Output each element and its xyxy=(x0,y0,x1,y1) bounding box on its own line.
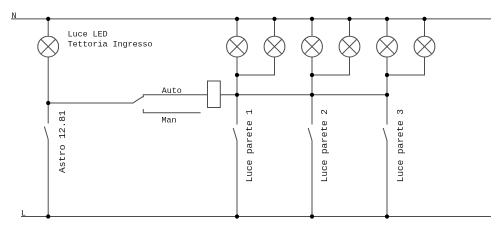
switch S4 (Luce parete 3) blade xyxy=(383,128,387,141)
wire: N bus to lamp E4 top xyxy=(311,19,313,36)
svg-text:Astro 12.81: Astro 12.81 xyxy=(57,110,68,173)
svg-text:N: N xyxy=(12,11,17,21)
switch S2 (Luce parete 1) blade xyxy=(233,128,237,141)
junction: N bus / lamp E3 xyxy=(272,17,276,21)
junction: node D xyxy=(310,73,314,77)
wire: lamp E5 bottom to node D xyxy=(312,57,350,75)
svg-text:Tettoria Ingresso: Tettoria Ingresso xyxy=(68,39,153,49)
net N (neutral bus, top) xyxy=(11,18,491,20)
lamp E6 xyxy=(377,36,398,57)
junction: node F xyxy=(385,73,389,77)
junction: node B xyxy=(235,73,239,77)
wire: N bus to lamp E2 top xyxy=(236,19,238,36)
lamp E5 xyxy=(339,36,360,57)
switch S3 (Luce parete 2) blade xyxy=(308,128,312,141)
junction: N bus / lamp E5 xyxy=(347,17,351,21)
switch S0 (Astro 12.81) blade xyxy=(44,127,48,140)
lamp E4 xyxy=(302,36,323,57)
wire: lamp E1 bottom to node A xyxy=(47,57,49,103)
svg-text:Auto: Auto xyxy=(162,86,182,96)
svg-text:Man: Man xyxy=(162,116,177,126)
relay coil K1 xyxy=(208,81,221,108)
wire: lamp E4 bottom to node D xyxy=(311,57,313,75)
wire: switch S2 to L bus xyxy=(236,141,238,217)
junction: node E xyxy=(310,93,314,97)
junction: L bus / switch S2 xyxy=(235,214,239,218)
junction: L bus / switch S3 xyxy=(310,214,314,218)
wire: node F to bus node G xyxy=(386,75,388,95)
junction: L bus / switch S4 xyxy=(385,214,389,218)
lamp E2 xyxy=(227,36,248,57)
junction: N bus / lamp E6 xyxy=(385,17,389,21)
junction: L bus / switch S0 xyxy=(46,214,50,218)
wire: lamp E3 bottom to node B xyxy=(237,57,275,75)
wire: N bus to lamp E5 top xyxy=(349,19,351,36)
svg-text:Luce parete 1: Luce parete 1 xyxy=(244,109,255,183)
lamp E3 xyxy=(264,36,285,57)
lamp E1 (Luce LED Tettoria Ingresso) xyxy=(38,36,59,57)
wire: node A down to switch S0 xyxy=(47,103,49,124)
wire: lamp E7 bottom to node F xyxy=(387,57,425,75)
wire: node A to selector common xyxy=(48,102,132,104)
wire: node B to bus node C xyxy=(236,75,238,95)
wire: lamp E2 bottom to node B xyxy=(236,57,238,75)
wire: node E down to switch S3 xyxy=(311,95,313,125)
wire: node G down to switch S4 xyxy=(386,95,388,125)
junction: N bus / lamp E4 xyxy=(310,17,314,21)
wire: lamp E6 bottom to node F xyxy=(386,57,388,75)
net L (line bus, bottom) xyxy=(21,216,491,218)
svg-text:Luce parete 3: Luce parete 3 xyxy=(395,109,406,183)
contact Auto wire xyxy=(143,95,207,98)
junction: node G xyxy=(385,93,389,97)
wire: N bus to lamp E1 top xyxy=(47,19,49,36)
contact Man stub xyxy=(143,109,200,113)
junction: N bus / lamp E7 xyxy=(422,17,426,21)
junction: N bus / lamp E2 xyxy=(235,17,239,21)
wire: N bus to lamp E3 top xyxy=(274,19,276,36)
wire: node C down to switch S2 xyxy=(236,95,238,125)
svg-text:Luce LED: Luce LED xyxy=(68,30,108,40)
wire: switch S3 to L bus xyxy=(311,141,313,217)
svg-text:L: L xyxy=(21,209,26,219)
wire: N bus to lamp E6 top xyxy=(386,19,388,36)
selector switch S1 blade (Auto/Man) xyxy=(132,96,143,103)
junction: node C xyxy=(235,93,239,97)
wire: switch S4 to L bus xyxy=(386,141,388,217)
wire: switch S0 to L bus xyxy=(47,140,49,217)
wire: relay K1 output bus xyxy=(220,94,387,96)
wire: N bus to lamp E7 top xyxy=(424,19,426,36)
wire: node D to bus node E xyxy=(311,75,313,95)
junction: N bus / lamp E1 xyxy=(46,17,50,21)
svg-text:Luce parete 2: Luce parete 2 xyxy=(319,109,330,182)
lamp E7 xyxy=(414,36,435,57)
junction: node A xyxy=(46,101,50,105)
